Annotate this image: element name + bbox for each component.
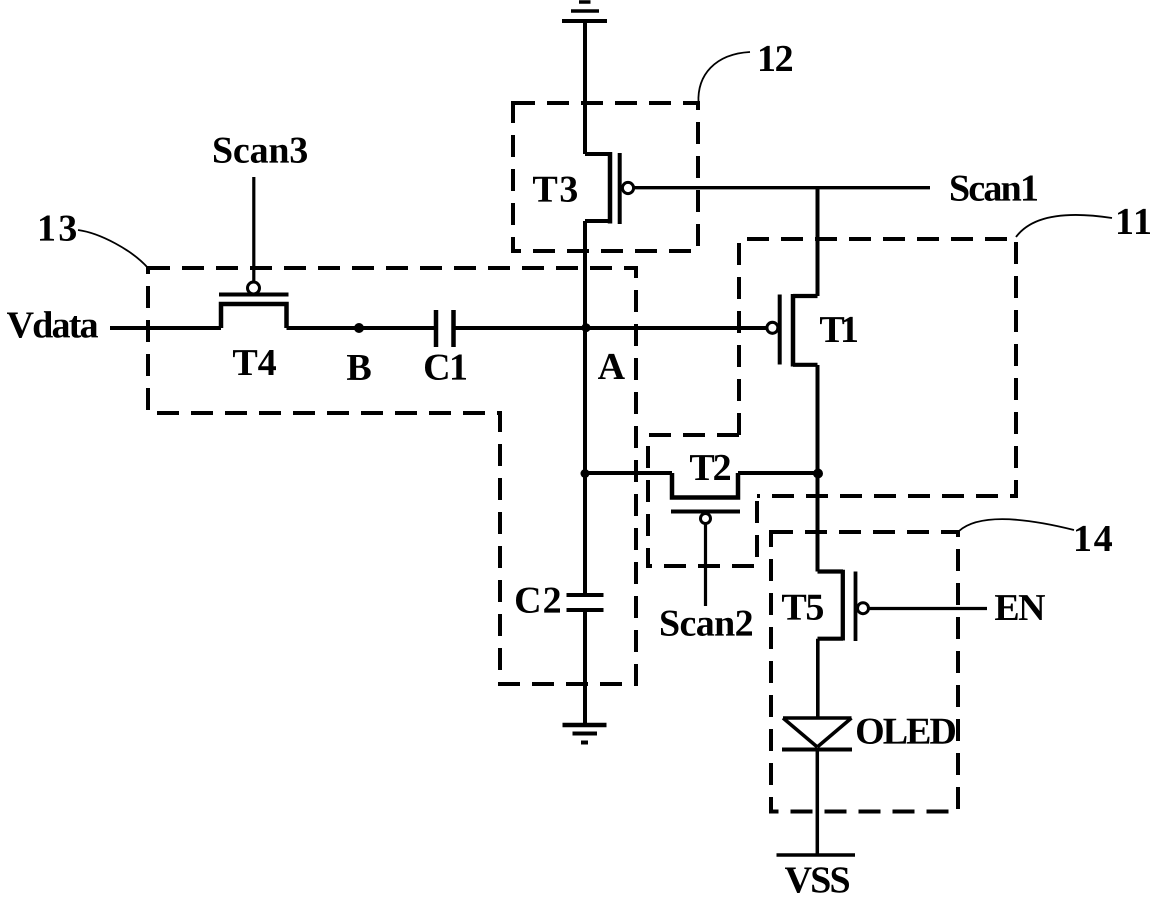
wire: C2 to ground — [583, 610, 587, 723]
wire: T4 to C1 — [287, 326, 435, 330]
label Scan2 — [661, 611, 752, 637]
label 11 — [1118, 209, 1150, 234]
label T2 — [690, 455, 730, 480]
wire: Scan2 to T2 gate — [704, 524, 707, 607]
junction dot right (T1 source) — [813, 469, 823, 479]
wire: main vertical T3 source down to C2 — [583, 221, 587, 595]
wire: Vdata to T4 — [110, 326, 221, 330]
power rail symbol (top) — [562, 2, 607, 21]
label 14 — [1076, 526, 1112, 551]
wire: Scan1 line from T3 gate — [635, 186, 931, 189]
capacitor C1 — [436, 310, 454, 347]
transistor T4 — [219, 282, 289, 328]
leader 11 — [1016, 215, 1112, 237]
leader 14 — [959, 519, 1074, 531]
leader 13 — [78, 230, 148, 268]
wire: EN to T5 gate — [870, 607, 988, 610]
node A junction — [582, 323, 591, 332]
wire: OLED to VSS — [816, 750, 820, 856]
label T3 — [533, 177, 577, 203]
wire: node A down junction row — [585, 471, 672, 475]
label OLED — [857, 719, 955, 745]
node B — [354, 323, 364, 333]
label T4 — [233, 350, 276, 375]
leader 12 — [698, 52, 750, 103]
label A — [598, 354, 625, 379]
label Scan1 — [951, 176, 1037, 202]
label Scan3 — [214, 138, 307, 164]
label C2 — [516, 588, 560, 614]
ground — [563, 725, 607, 743]
transistor T5 — [818, 473, 869, 718]
transistor T2 — [671, 473, 740, 524]
wire: C1 to node A to T1 gate — [456, 326, 768, 330]
dashed box 12 — [513, 103, 698, 251]
label Vdata — [7, 311, 98, 338]
capacitor C2 — [567, 595, 604, 610]
diode OLED — [782, 718, 852, 750]
dashed box 11 — [739, 239, 1016, 496]
label EN — [995, 595, 1045, 620]
wire: T2 to T1 source junction — [738, 471, 818, 475]
wire: power rail to T3 drain — [583, 21, 587, 154]
VSS terminal bar — [777, 853, 856, 857]
label 13 — [40, 216, 76, 242]
transistor T3 — [585, 152, 634, 224]
transistor T1 — [767, 188, 818, 473]
dashed box 14 — [771, 532, 958, 812]
label C1 — [425, 355, 466, 381]
dashed box 13 — [148, 268, 636, 684]
label T5 — [782, 595, 823, 620]
wire: Scan3 to T4 gate — [252, 177, 255, 282]
label B — [347, 355, 371, 380]
label VSS — [785, 867, 849, 893]
label T1 — [820, 317, 857, 342]
dashed box around T2 — [648, 435, 757, 566]
label 12 — [760, 46, 792, 71]
junction dot left (node A column) — [581, 469, 590, 478]
